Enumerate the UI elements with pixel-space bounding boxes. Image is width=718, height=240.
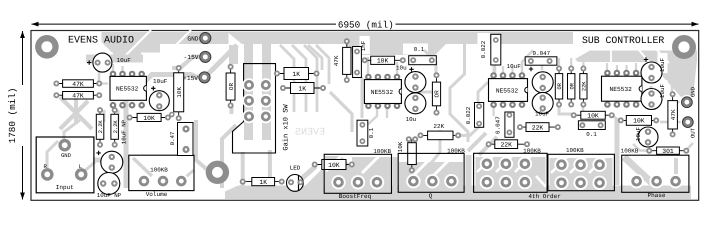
wire gap: [589, 157, 605, 173]
wire: [393, 157, 398, 193]
wire: [582, 58, 584, 69]
capacitor 0.1 (top): [409, 46, 437, 64]
wire gap: [432, 158, 451, 177]
wire: [479, 137, 497, 155]
wire: [367, 57, 369, 77]
svg-text:0.022: 0.022: [480, 40, 487, 58]
resistor 22K (c): [486, 140, 530, 149]
wire: [229, 45, 238, 64]
wire: [671, 86, 674, 94]
resistor 10K (vert U1): [174, 65, 184, 121]
wire: [74, 99, 78, 124]
svg-text:1K: 1K: [259, 179, 267, 186]
wire gap: [610, 49, 612, 63]
capacitor C 10uF NP (a): [96, 151, 122, 174]
svg-text:-15V: -15V: [184, 54, 199, 61]
wire: [241, 152, 245, 193]
svg-text:100KB: 100KB: [447, 148, 465, 155]
wire: [172, 57, 205, 68]
dimension line 1780 (mil): [7, 31, 25, 200]
svg-text:1nF: 1nF: [360, 40, 367, 51]
svg-text:47K: 47K: [670, 109, 677, 120]
capacitor C 10uF NP (b): [98, 173, 120, 195]
potentiometer Phase 100KB: [621, 148, 689, 200]
pad GND (out): [680, 86, 697, 109]
wire: [330, 92, 352, 132]
svg-text:Gain x10 SW: Gain x10 SW: [282, 104, 291, 151]
wire gap: [551, 157, 567, 173]
svg-text:0.1: 0.1: [586, 131, 597, 138]
svg-text:GND: GND: [689, 86, 696, 97]
mounting hole top-right: [672, 35, 696, 59]
resistor 10K (Q): [397, 136, 418, 173]
wire: [86, 55, 143, 63]
svg-text:10uF NP: 10uF NP: [121, 119, 128, 144]
svg-text:2.2K: 2.2K: [98, 120, 104, 134]
wire: [262, 44, 271, 140]
wire pour: [658, 80, 668, 98]
resistor 1K (LED): [240, 178, 285, 186]
svg-text:47K: 47K: [72, 81, 84, 88]
connector Input: [36, 137, 94, 193]
resistor 10K (BoostFreq): [312, 160, 355, 170]
wire pour: [478, 33, 490, 64]
svg-text:OR: OR: [569, 82, 575, 89]
wire: [650, 86, 653, 91]
resistor 22K (vert): [580, 66, 588, 108]
capacitor 1nF: [353, 40, 367, 77]
wire: [559, 104, 572, 114]
svg-text:4th Order: 4th Order: [528, 193, 561, 200]
svg-text:301: 301: [662, 148, 674, 155]
pad OUT: [681, 115, 697, 138]
wire pour: [476, 157, 546, 191]
wire: [624, 157, 652, 183]
wire pour: [645, 51, 697, 98]
wire gap: [326, 154, 343, 171]
wire pour: [360, 36, 370, 54]
wire: [686, 143, 693, 151]
svg-text:10K: 10K: [587, 113, 599, 120]
potentiometer BoostFreq 100KB: [324, 148, 391, 200]
wire pour: [225, 186, 691, 200]
resistor 10K (below U1): [127, 113, 171, 121]
svg-text:10u: 10u: [396, 65, 407, 72]
svg-text:1K: 1K: [298, 85, 306, 92]
wire: [606, 63, 608, 73]
wire gap: [477, 156, 493, 172]
wire: [633, 144, 649, 151]
svg-text:GND: GND: [187, 35, 198, 42]
capacitor C 10uF (U3 a): [529, 67, 553, 93]
svg-text:0.47: 0.47: [169, 132, 176, 146]
svg-text:47K: 47K: [333, 55, 340, 66]
svg-text:10uF: 10uF: [153, 78, 168, 85]
wire: [121, 66, 123, 74]
op-amp U1 NE5532: [110, 71, 147, 109]
wire: [99, 55, 108, 82]
wire gap: [536, 176, 546, 187]
resistor 47K (vert mid): [333, 38, 351, 83]
svg-text:10uF: 10uF: [507, 63, 522, 70]
wire gap: [656, 49, 669, 63]
svg-text:OR: OR: [434, 90, 441, 98]
svg-text:SUB CONTROLLER: SUB CONTROLLER: [582, 35, 664, 46]
wire: [206, 45, 237, 76]
wire: [280, 45, 294, 112]
resistor OR (switch): [226, 64, 235, 109]
wire: [364, 106, 377, 128]
wire: [304, 45, 317, 100]
wire: [415, 91, 436, 94]
capacitor C 10uF (U4 a): [641, 57, 662, 83]
capacitor C 10uF (U4 b): [641, 89, 662, 110]
svg-text:OR: OR: [228, 83, 235, 91]
wire pour: [305, 167, 324, 186]
wire: [674, 158, 678, 178]
wire pour: [526, 45, 558, 57]
svg-text:NE5532: NE5532: [496, 87, 519, 94]
svg-text:22K: 22K: [500, 142, 512, 149]
resistor 1K (a): [274, 68, 320, 80]
capacitor 0.047 (vert): [495, 112, 515, 137]
wire: [268, 150, 272, 193]
wire pour: [325, 156, 360, 186]
capacitor C 10u (U2 b): [405, 93, 426, 114]
op-amp U3 NE5532: [489, 72, 528, 108]
wire: [292, 45, 306, 112]
wire: [635, 63, 637, 73]
svg-text:10uF NP: 10uF NP: [97, 192, 122, 199]
wire gap: [638, 49, 650, 63]
wire: [126, 75, 205, 189]
svg-text:22K: 22K: [532, 124, 544, 131]
capacitor 0.022 (b): [465, 103, 484, 128]
svg-text:47K: 47K: [72, 93, 84, 100]
svg-text:Q: Q: [429, 193, 433, 200]
wire: [282, 166, 316, 196]
capacitor 0.47: [169, 123, 193, 156]
resistor 22K (Q): [418, 123, 462, 140]
wire: [570, 58, 572, 69]
svg-text:22K: 22K: [433, 123, 444, 130]
wire: [625, 65, 627, 73]
svg-text:L: L: [79, 163, 82, 170]
wire pour: [399, 162, 463, 190]
wire pour: [550, 158, 613, 189]
svg-text:Volume: Volume: [146, 191, 168, 198]
wire: [468, 133, 486, 151]
svg-text:EVENS: EVENS: [295, 128, 325, 139]
dimension line 6950 (mil): [32, 19, 699, 30]
wire: [615, 119, 620, 185]
svg-text:0.047: 0.047: [533, 50, 551, 57]
svg-text:BoostFreq: BoostFreq: [339, 193, 372, 200]
wire: [117, 110, 120, 122]
wire: [511, 66, 513, 75]
svg-text:10uF: 10uF: [659, 83, 666, 98]
wire: [60, 97, 92, 129]
wire: [478, 82, 488, 106]
wire: [612, 115, 620, 121]
wire pour: [352, 157, 391, 186]
svg-text:10uF: 10uF: [117, 57, 132, 64]
svg-text:10K: 10K: [176, 87, 183, 98]
pad -15V: [184, 51, 211, 62]
svg-text:NE5532: NE5532: [116, 86, 139, 93]
wire: [133, 158, 152, 176]
wire gap: [157, 30, 191, 64]
potentiometer Q 100KB: [398, 148, 465, 200]
wire: [522, 50, 533, 75]
resistor OR (U2): [432, 72, 440, 115]
resistor 10K (c): [571, 111, 615, 119]
wire: [222, 125, 236, 188]
resistor 2.2K (a): [96, 107, 104, 148]
wire: [502, 66, 504, 75]
svg-text:0.1: 0.1: [414, 46, 425, 53]
wire: [103, 110, 106, 122]
wire pour: [575, 51, 697, 63]
LED: [287, 164, 304, 191]
resistor OR (U3 b): [568, 66, 576, 108]
op-amp U2 NE5532: [364, 74, 401, 109]
svg-text:+15V: +15V: [183, 75, 198, 82]
wire: [112, 64, 114, 74]
svg-text:6950 (mil): 6950 (mil): [338, 19, 394, 30]
svg-text:NE5532: NE5532: [610, 86, 633, 93]
resistor 47K (a): [53, 80, 102, 88]
wire: [230, 103, 234, 114]
wire: [181, 170, 194, 181]
potentiometer Volume 100KB: [129, 155, 194, 198]
mounting hole bottom-middle: [206, 161, 229, 184]
svg-text:0.047: 0.047: [495, 116, 502, 134]
capacitor 0.1 (d): [578, 121, 605, 138]
wire pour: [113, 44, 160, 53]
svg-text:0.1: 0.1: [368, 127, 375, 138]
wire: [308, 45, 322, 70]
wire gap: [515, 156, 531, 172]
wire: [361, 77, 364, 118]
wire: [466, 155, 472, 192]
resistor 22K (b): [517, 123, 561, 132]
wire: [93, 158, 126, 163]
pad +15V: [183, 72, 210, 83]
wire: [616, 65, 618, 73]
svg-text:OUT: OUT: [689, 127, 696, 138]
svg-text:100KB: 100KB: [150, 167, 168, 174]
svg-text:NE5532: NE5532: [371, 89, 394, 96]
capacitor C 10uF (input): [87, 53, 131, 72]
wire: [386, 106, 388, 118]
wire gap: [412, 158, 431, 177]
svg-text:LED: LED: [290, 164, 301, 171]
svg-text:10K: 10K: [633, 118, 645, 125]
svg-text:0.022: 0.022: [465, 106, 472, 124]
switch Gain x10 SW: [233, 64, 291, 153]
resistor 10K (d): [618, 116, 659, 126]
svg-text:10uF: 10uF: [535, 111, 550, 118]
capacitor 0.022 (a): [480, 34, 501, 65]
svg-text:2.2K: 2.2K: [113, 120, 119, 134]
svg-text:100KB: 100KB: [373, 148, 391, 155]
capacitor C 10uF (U3 b): [532, 93, 553, 114]
pad GND: [187, 33, 211, 44]
svg-text:10uF: 10uF: [635, 126, 642, 141]
svg-text:100KB: 100KB: [621, 148, 639, 155]
wire: [541, 62, 543, 70]
wire pour: [403, 44, 428, 55]
capacitor C 10u (U2 a): [405, 67, 426, 93]
wire: [494, 62, 496, 73]
resistor 47K (out): [668, 91, 678, 137]
wire: [458, 127, 479, 135]
wire: [676, 101, 686, 103]
wire: [196, 120, 212, 174]
svg-text:10K: 10K: [328, 162, 340, 169]
svg-text:22K: 22K: [582, 81, 588, 91]
capacitor C 10uF (U1): [149, 78, 169, 111]
wire: [432, 130, 440, 181]
svg-text:10K: 10K: [377, 58, 389, 65]
wire pour: [658, 53, 668, 73]
wire: [60, 101, 88, 129]
svg-text:Phase: Phase: [647, 192, 665, 199]
potentiometer 4th Order (a) 100KB: [474, 148, 547, 193]
wire: [558, 58, 560, 69]
svg-text:10u: 10u: [406, 116, 417, 123]
wire gap: [496, 156, 512, 172]
capacitor 0.1 (vert): [357, 120, 375, 146]
wire pour: [215, 32, 573, 55]
wire pour: [102, 42, 113, 53]
svg-text:10K: 10K: [397, 141, 404, 152]
wire: [81, 162, 95, 174]
svg-text:1780 (mil): 1780 (mil): [7, 88, 18, 144]
wire: [582, 104, 584, 112]
wire gap: [117, 30, 151, 64]
wire pour: [229, 33, 244, 45]
svg-text:10uF: 10uF: [659, 57, 666, 72]
capacitor C 10uF (out): [638, 127, 658, 147]
resistor 2.2K (b): [111, 107, 119, 148]
op-amp U4 NE5532: [602, 70, 642, 108]
capacitor 0.047 (top): [525, 50, 557, 65]
wire: [99, 82, 108, 84]
wire: [424, 50, 436, 75]
wire pour: [102, 32, 216, 62]
svg-text:Input: Input: [56, 184, 74, 191]
wire: [412, 170, 430, 181]
wire: [660, 121, 687, 123]
potentiometer 4th Order (b) 100KB: [548, 147, 615, 191]
svg-text:100KB: 100KB: [566, 147, 584, 154]
svg-text:GND: GND: [61, 152, 72, 159]
wire gap: [362, 154, 381, 173]
resistor 301: [646, 147, 689, 155]
resistor OR (U3 a): [555, 66, 563, 108]
via pad: [169, 112, 175, 118]
resistor 10K (mid top): [362, 56, 406, 64]
wire: [450, 44, 468, 142]
wire: [493, 66, 495, 75]
svg-text:100KB: 100KB: [523, 148, 541, 155]
svg-text:1K: 1K: [292, 71, 300, 78]
wire: [316, 45, 329, 84]
svg-text:OR: OR: [557, 82, 563, 89]
wire: [244, 44, 253, 140]
resistor 1K (b): [280, 83, 326, 94]
wire: [47, 141, 58, 174]
wire: [493, 105, 495, 116]
wire gap: [570, 157, 586, 173]
wire: [396, 62, 398, 77]
svg-text:10K: 10K: [143, 115, 155, 122]
wire: [316, 100, 319, 112]
mounting hole top-left: [35, 35, 59, 59]
wire: [64, 120, 80, 146]
board outline: [31, 31, 699, 201]
resistor 47K (b): [53, 92, 102, 100]
svg-text:EVENS AUDIO: EVENS AUDIO: [68, 35, 134, 46]
